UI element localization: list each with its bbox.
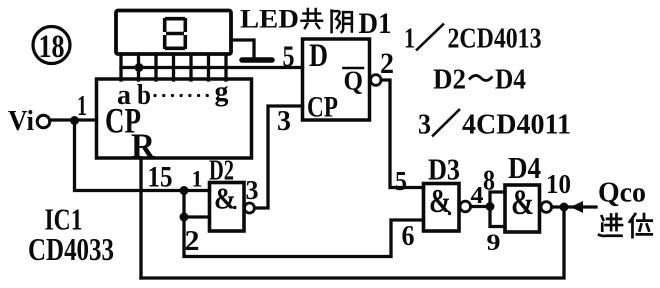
label D2~D4 [433,64,526,96]
svg-text:4CD4011: 4CD4011 [462,110,571,141]
svg-text:g: g [215,77,229,108]
nand gate D2 [210,183,245,232]
svg-text:5: 5 [283,40,295,73]
svg-text:6: 6 [402,221,415,252]
hanzi 位 [630,214,652,237]
label 1/2CD4013 [404,24,542,55]
svg-text:10: 10 [546,169,571,199]
svg-text:2CD4013: 2CD4013 [448,24,542,55]
svg-text:3: 3 [418,110,431,141]
svg-text:D2: D2 [209,156,234,187]
svg-text:Vi: Vi [8,106,34,137]
svg-text:1: 1 [404,24,415,55]
IC1 segment output labels a b ... g [117,77,229,112]
junction dot D4 input node [486,202,495,211]
hanzi 共 [301,9,322,28]
wire D4 output to Qco terminal [552,205,596,208]
label 3/4CD4011 [418,110,571,141]
wire D2 output up to D1 CP [255,106,303,208]
svg-text:&: & [511,182,534,222]
svg-text:2: 2 [185,225,200,257]
svg-text:CD4033: CD4033 [28,231,114,267]
wire Vi to IC1 CP pin 1 [50,118,97,121]
circled figure number 18 [33,27,70,66]
svg-text:LED: LED [240,5,299,34]
print period after ampersand D3 [448,212,451,215]
wire segment-b to D1 D input [121,66,303,69]
svg-text:1: 1 [77,90,87,122]
svg-text:5: 5 [395,166,407,196]
svg-text:15: 15 [148,161,173,194]
print period after ampersand D2 [233,206,236,209]
svg-text:18: 18 [39,29,65,65]
D4 output bubble [541,202,552,213]
junction dot Vi node [70,116,79,125]
svg-text:D3: D3 [428,152,460,187]
arrowhead on Qco wire [571,201,584,213]
junction dot D2 input 1 [180,186,189,195]
svg-text:2: 2 [380,47,394,80]
svg-text:D4: D4 [508,150,541,185]
input terminal circle [37,115,50,128]
D flip-flop D1 box [303,39,370,120]
svg-text:D1: D1 [359,7,392,40]
digit 8 on display [165,18,186,49]
svg-text:8: 8 [483,165,495,197]
nand gate D4 [505,185,540,232]
display segment pin wires a-g [121,54,226,80]
D2 output bubble [245,203,255,213]
junction dot D2 input 2 [180,213,189,222]
wire to D2 input 2 [184,191,210,218]
wire D3 output to D4 inputs [471,192,505,227]
wire IC1 R pin 15 down to feedback rail [139,158,142,278]
counter IC1 CD4033 box [97,79,252,158]
hanzi 阴 [332,11,352,33]
wire node 2 down and across to D3 input 6 [184,217,424,257]
svg-text:&: & [429,183,451,220]
junction dot on segment b [135,63,144,72]
svg-text:1: 1 [192,167,203,192]
svg-text:D4: D4 [495,64,526,96]
nand gate D3 [424,184,460,232]
svg-text:3: 3 [277,105,291,137]
svg-text:3: 3 [246,175,259,205]
svg-text:Qco: Qco [598,177,646,209]
ground [242,57,272,63]
svg-text:9: 9 [487,230,501,255]
junction dot Qco node [560,203,569,212]
wire Vi node down to D2 inputs [75,120,210,191]
dotted line between b and g [155,94,208,97]
svg-text:D: D [309,38,328,74]
svg-text:D2: D2 [433,64,466,96]
wire D1 output down to D3 input 5 [381,80,423,188]
svg-text:Q: Q [344,66,364,96]
feedback rail wire Qco to R [141,207,564,278]
wire display common cathode to ground [231,40,254,59]
svg-text:CP: CP [307,91,338,124]
hanzi 进 [599,214,622,236]
D3 output bubble [460,201,471,212]
7-segment LED display module [116,11,231,55]
D1 output bubble [371,75,382,86]
